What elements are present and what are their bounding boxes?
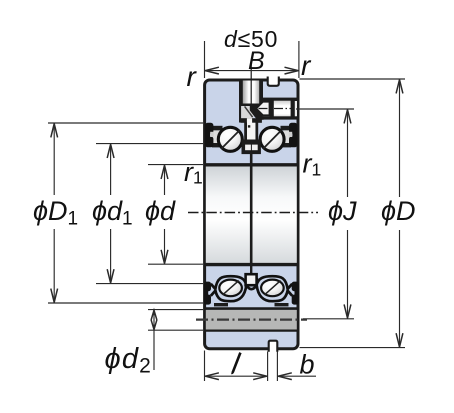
svg-text:r1: r1 [184,157,203,188]
svg-text:ϕd2: ϕd2 [105,343,153,378]
svg-text:r: r [301,50,312,81]
svg-text:r1: r1 [303,149,322,180]
svg-text:ϕJ: ϕJ [328,196,357,226]
svg-text:ϕd1: ϕd1 [92,196,133,230]
svg-text:B: B [248,47,265,75]
svg-text:r: r [187,61,198,92]
svg-text:ϕd: ϕd [145,196,176,226]
svg-text:ϕD: ϕD [381,196,416,226]
svg-text:ϕD1: ϕD1 [33,196,78,230]
svg-text:b: b [300,350,315,380]
